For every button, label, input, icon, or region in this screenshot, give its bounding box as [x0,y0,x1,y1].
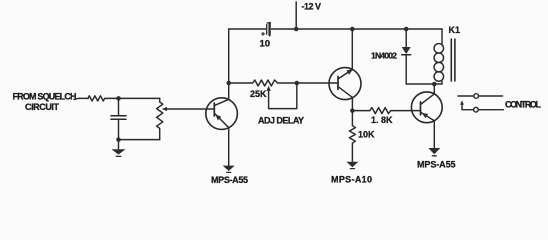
wire: Q2 emitter to rail [351,29,353,70]
wire: node A vertical (rail to Q1 collector) [228,29,230,99]
wire: Q3 emitter to ground [433,121,435,148]
capacitor C1 lead [118,98,120,115]
wire: Q2 collector down [351,97,353,110]
wire: coil bottom line [406,83,442,85]
svg-text:MPS-A10: MPS-A10 [331,175,372,185]
node: C1/R2 bottom junction [116,137,121,142]
node A junction [226,81,231,86]
svg-text:CONTROL: CONTROL [505,99,542,109]
svg-text:1. 8K: 1. 8K [371,115,393,125]
svg-text:10K: 10K [358,129,375,139]
svg-text:MPS-A55: MPS-A55 [211,175,248,185]
svg-text:10: 10 [260,39,271,50]
capacitor C1 bottom lead [118,119,120,139]
potentiometer R3 25K [253,80,278,86]
node: Q3 collector junction [432,82,437,87]
node: -12V entry [294,27,299,32]
svg-text:K1: K1 [449,25,461,35]
resistor R5 10K [349,111,355,162]
label: FROM SQUELCH CIRCUIT [13,92,77,112]
wire: squelch input [74,98,88,99]
relay contact: fixed (top) [458,94,503,99]
resistor R1 (input series) [88,96,105,101]
capacitor C2 10uF [262,23,271,36]
ground (Q3 emitter, arrow) [428,148,440,156]
wire: R4 to Q3 base [391,110,421,112]
node: input junction [116,96,121,101]
ground (input network) [112,140,126,157]
svg-text:ADJ DELAY: ADJ DELAY [258,116,304,126]
diode CR1 1N4002 [402,29,411,84]
wire: top rail left segment [229,28,266,30]
node: Q2 base junction [295,81,300,86]
wire: R2 bottom to junction [119,139,160,141]
ground (Q1 emitter) [223,166,235,173]
node: rail/Q2 [350,27,355,32]
wire: R2 wiper to Q1 base [162,107,215,111]
wire: top rail right segment [271,28,442,30]
wire: -12V supply lead [295,2,297,29]
transistor Q3 MPS-A55 [411,92,442,123]
transistor Q1 MPS-A55 [206,98,238,130]
transistor Q2 MPS-A10 [329,68,361,100]
wire: R1 to node [105,97,159,99]
svg-text:CIRCUIT: CIRCUIT [25,102,60,112]
wire: junction to R4 [352,110,369,112]
svg-text:MPS-A55: MPS-A55 [417,159,456,169]
wire: Q3 collector lead [433,84,435,94]
relay contact: movable (bottom) with actuator arrow [460,100,503,112]
resistor R4 1.8K [370,108,391,114]
wire: 25K to Q2 base [278,82,338,84]
wire: Q1 emitter to ground [228,128,230,166]
relay core [451,39,455,81]
relay K1 coil [434,29,444,84]
svg-text:25K: 25K [250,89,267,99]
wire: node A to 25K [229,82,253,84]
wire: R3 wiper loop [266,83,296,109]
svg-text:FROM SQUELCH: FROM SQUELCH [13,92,77,102]
node: Q2 collector junction [350,108,355,113]
node: rail/diode [404,27,409,32]
ground (R5) [346,162,358,169]
svg-text:1N4002: 1N4002 [371,50,397,60]
capacitor C1 plates [111,115,126,117]
potentiometer R2 body [157,98,163,139]
svg-text:-12 V: -12 V [302,2,322,12]
